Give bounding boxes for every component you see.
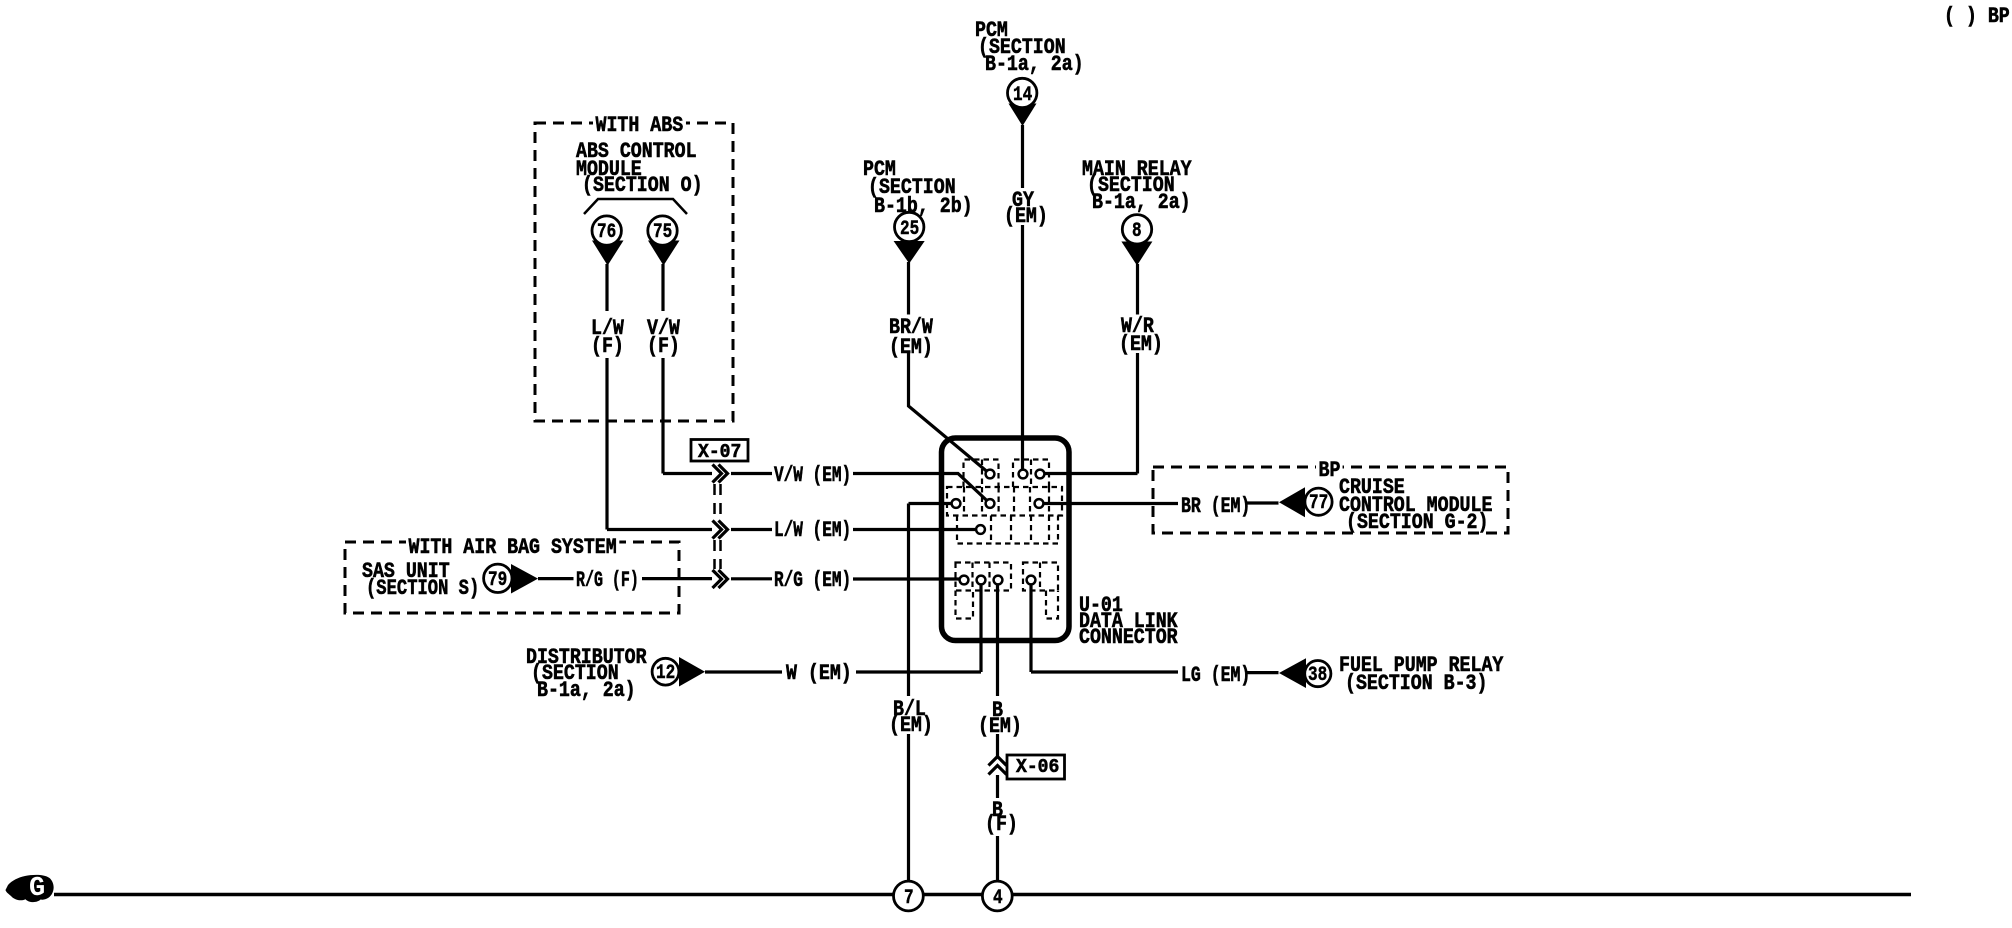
svg-text:G: G — [29, 874, 45, 904]
